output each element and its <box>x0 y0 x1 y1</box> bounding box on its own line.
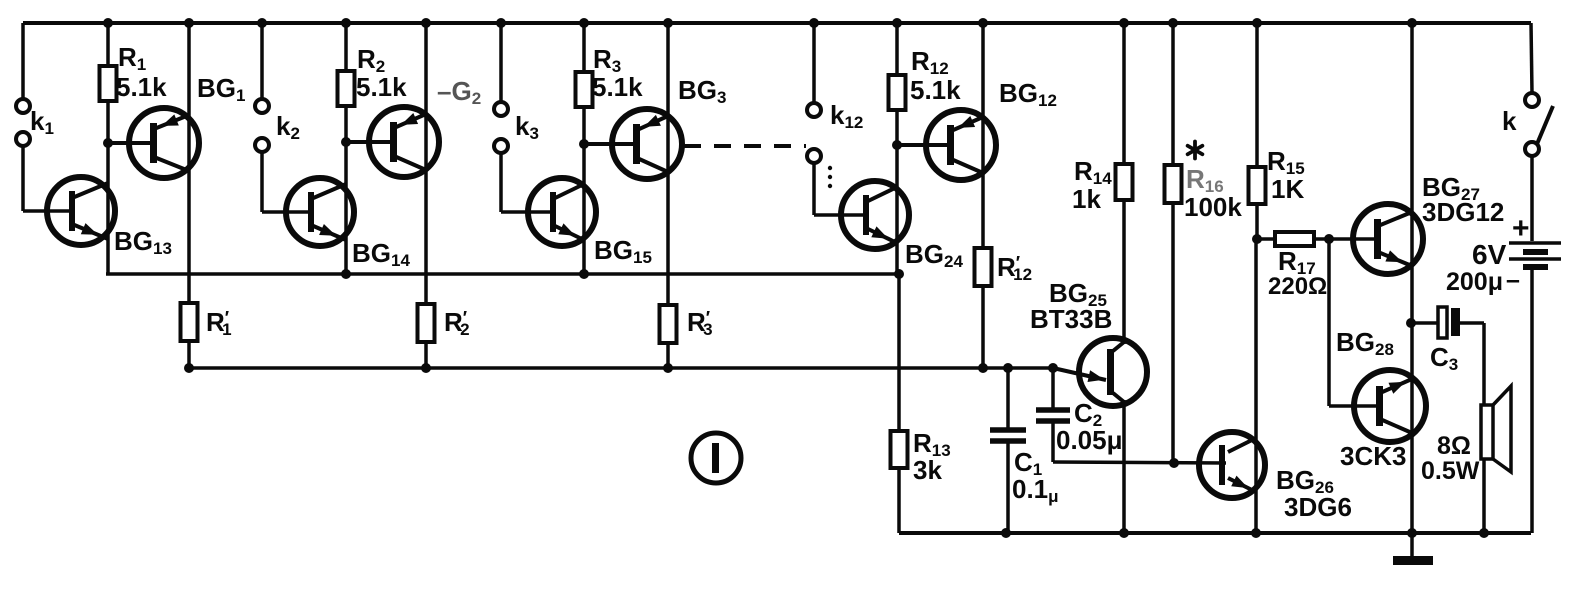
svg-text:3k: 3k <box>913 455 942 485</box>
svg-text:5.1k: 5.1k <box>592 72 643 102</box>
svg-text:3CK3: 3CK3 <box>1340 441 1406 471</box>
svg-text:100k: 100k <box>1184 192 1242 222</box>
svg-text:6V: 6V <box>1472 239 1507 270</box>
svg-text:1k: 1k <box>1072 184 1101 214</box>
svg-text:5.1k: 5.1k <box>116 72 167 102</box>
svg-text:R′2: R′2 <box>444 307 470 339</box>
svg-text:R′1: R′1 <box>206 307 232 339</box>
svg-text:8Ω: 8Ω <box>1437 432 1471 460</box>
svg-text:–: – <box>1506 266 1520 294</box>
svg-text:5.1k: 5.1k <box>910 75 961 105</box>
svg-text:0.5W: 0.5W <box>1421 457 1480 485</box>
svg-text:BT33B: BT33B <box>1030 304 1112 334</box>
svg-text:3DG12: 3DG12 <box>1422 197 1504 227</box>
svg-text:3DG6: 3DG6 <box>1284 492 1352 522</box>
svg-text:200μ: 200μ <box>1446 268 1503 296</box>
svg-text:1K: 1K <box>1271 174 1304 204</box>
svg-text:5.1k: 5.1k <box>356 72 407 102</box>
svg-text:+: + <box>1512 212 1530 245</box>
svg-text:k: k <box>1502 106 1517 136</box>
svg-text:R′3: R′3 <box>687 307 713 339</box>
svg-text:220Ω: 220Ω <box>1268 273 1327 300</box>
svg-text:0.05μ: 0.05μ <box>1056 425 1123 455</box>
